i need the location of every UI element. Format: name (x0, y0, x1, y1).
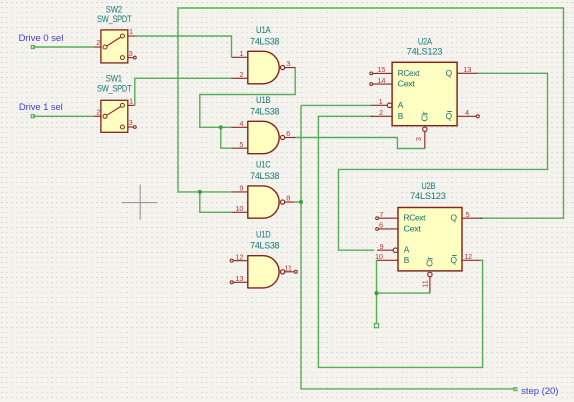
U2B A input inversion bubble (393, 248, 398, 253)
U1A pin 2 stub (232, 77, 248, 79)
unconnected Qbar marker (476, 115, 479, 118)
svg-text:5: 5 (466, 210, 470, 219)
svg-text:RCext: RCext (404, 213, 427, 223)
svg-text:2: 2 (239, 70, 243, 79)
wire U2B B pin10 to U2B Clr pin11 (377, 260, 431, 293)
SW2 body (101, 30, 128, 63)
IC U2B 74LS123 monostable (375, 181, 483, 293)
wire U1B pin6 to U2A Clr pin3 (294, 138, 425, 149)
net label "Drive 1 sel" (19, 102, 63, 118)
U1A output inversion bubble (281, 65, 285, 69)
svg-text:B: B (398, 111, 404, 121)
unconnected output marker (294, 270, 297, 273)
svg-text:B: B (404, 255, 410, 265)
svg-text:8: 8 (286, 194, 290, 203)
U2A Q pin stub (457, 72, 478, 74)
U1A pin 1 stub (232, 56, 248, 58)
svg-text:11: 11 (421, 280, 430, 287)
U1A body (248, 51, 279, 84)
U2B Q pin stub (462, 217, 483, 219)
U2B A pin stub (inverted) (377, 249, 393, 251)
U2A Qbar pin stub (457, 115, 476, 117)
svg-text:74LS38: 74LS38 (250, 36, 279, 46)
U2B Qbar pin stub (462, 259, 481, 261)
svg-text:Q: Q (450, 255, 457, 265)
SW1 throw arm (107, 106, 121, 115)
svg-text:10: 10 (235, 204, 243, 213)
svg-text:9: 9 (239, 184, 243, 193)
SW2 pin 3 unconnected marker (133, 56, 136, 59)
junction at U1C output (299, 200, 303, 204)
svg-text:Drive 0 sel: Drive 0 sel (19, 33, 64, 43)
svg-text:13: 13 (463, 65, 471, 74)
svg-text:12: 12 (464, 252, 472, 261)
U1C body (248, 186, 279, 218)
wire branch to U1B pin5 (221, 127, 232, 148)
wire SW1 pin1 to U1A pin2 (135, 78, 232, 105)
SW1 pin 2 stub (94, 115, 102, 117)
svg-text:2: 2 (96, 107, 100, 116)
svg-text:6: 6 (379, 221, 383, 230)
svg-text:4: 4 (465, 108, 469, 117)
U2A body (392, 62, 457, 125)
svg-text:9: 9 (380, 242, 384, 251)
svg-text:U1C: U1C (256, 160, 271, 170)
svg-text:74LS38: 74LS38 (250, 106, 279, 116)
unconnected input markers (230, 259, 233, 262)
svg-text:Clr: Clr (425, 256, 435, 266)
svg-text:12: 12 (235, 252, 243, 261)
svg-text:13: 13 (235, 274, 243, 283)
U1B pin 4 stub (232, 126, 248, 128)
svg-text:1: 1 (129, 97, 133, 106)
svg-text:RCext: RCext (398, 68, 421, 78)
svg-text:74LS123: 74LS123 (410, 191, 446, 201)
svg-text:SW1: SW1 (106, 74, 122, 84)
switch SW2 SW_SPDT (94, 5, 136, 63)
SW2 pin 1 stub (124, 35, 135, 37)
U2B Clr inversion bubble (428, 272, 432, 276)
net label "Drive 0 sel" (19, 33, 64, 48)
svg-text:U2B: U2B (421, 181, 435, 191)
SW1 body (101, 100, 128, 132)
U1C output inversion bubble (281, 200, 285, 204)
svg-text:3: 3 (414, 137, 423, 141)
U1C pin 8 output stub (285, 201, 295, 203)
SW1 pin 1 stub (124, 104, 135, 106)
svg-text:5: 5 (239, 140, 243, 149)
U1B pin 6 output stub (285, 137, 295, 139)
svg-text:74LS123: 74LS123 (407, 46, 443, 56)
U2B Cext pin stub (379, 228, 398, 230)
dangling wire end square (374, 324, 378, 328)
svg-text:10: 10 (375, 252, 383, 261)
svg-text:Cext: Cext (404, 223, 422, 233)
svg-text:2: 2 (96, 38, 100, 47)
NAND gate U1A (74LS38) (232, 25, 295, 84)
U2B Clr pin stub (bottom, inverted) (429, 277, 431, 293)
svg-text:SW_SPDT: SW_SPDT (97, 84, 132, 94)
SW1 pin 3 stub (124, 126, 134, 128)
switch SW1 SW_SPDT (94, 74, 136, 133)
svg-text:U2A: U2A (418, 37, 432, 47)
svg-text:Q: Q (446, 111, 453, 121)
svg-text:Clr: Clr (420, 111, 430, 121)
U2A RCext pin stub (373, 72, 392, 74)
svg-text:A: A (404, 245, 410, 255)
junction at U1C inputs (198, 190, 202, 194)
junction at U2B B/Clr (374, 291, 378, 295)
wire U2B Q pin5 to U1C pin9 (178, 8, 564, 218)
U2A Cext pin stub (373, 83, 392, 85)
wire SW2 pin1 to U1A pin1 (134, 36, 232, 57)
svg-text:15: 15 (377, 65, 385, 74)
svg-text:step (20): step (20) (521, 386, 558, 396)
U2B RCext pin stub (379, 217, 398, 219)
U1B output inversion bubble (281, 135, 285, 139)
U2A Clr inversion bubble (423, 127, 427, 131)
wire Drive 1 sel to SW1 pin2 (33, 115, 94, 117)
svg-text:74LS38: 74LS38 (250, 171, 279, 181)
svg-text:Cext: Cext (398, 79, 416, 89)
U1C pin 10 stub (232, 211, 248, 213)
svg-text:11: 11 (285, 263, 292, 272)
svg-text:4: 4 (239, 119, 243, 128)
svg-text:U1B: U1B (256, 95, 271, 105)
svg-text:3: 3 (286, 59, 290, 68)
svg-text:14: 14 (377, 76, 385, 85)
U2B B pin stub (377, 259, 399, 261)
wire dangling stub below junction (376, 293, 378, 323)
svg-text:1: 1 (239, 49, 243, 58)
U1D body (248, 256, 279, 288)
svg-text:1: 1 (379, 97, 383, 106)
U1C pin 9 stub (232, 191, 248, 193)
wire Drive 0 sel to SW2 pin2 (33, 46, 94, 48)
U2A A input inversion bubble (387, 103, 392, 108)
svg-text:U1D: U1D (256, 229, 271, 239)
U1D pin 11 output stub (285, 271, 295, 273)
wire U1C pin8 output stub (295, 201, 301, 203)
wire U1A pin3 to U1B pin4 (200, 68, 295, 128)
U1B pin 5 stub (232, 147, 248, 149)
svg-text:Drive 1 sel: Drive 1 sel (19, 102, 63, 112)
NAND gate U1C (74LS38) (232, 160, 295, 219)
IC U2A 74LS123 monostable (370, 37, 479, 149)
wire U1C output net down to step (20) label (301, 105, 515, 389)
wire U2A Q pin13 to U2B A pin9 (339, 73, 548, 250)
origin cross marker (122, 185, 158, 220)
svg-text:U1A: U1A (256, 25, 271, 35)
NAND gate U1B (74LS38) (232, 95, 295, 154)
SW1 pin 3 unconnected marker (133, 126, 136, 129)
svg-text:1: 1 (129, 27, 133, 36)
U1D pin 13 stub (233, 281, 248, 283)
svg-text:2: 2 (379, 108, 383, 117)
svg-text:3: 3 (129, 49, 133, 58)
SW2 pin 3 stub (124, 57, 134, 59)
NAND gate U1D (74LS38) (230, 229, 297, 288)
wire U2A B pin2 to U2B Qbar pin12 (318, 116, 482, 367)
svg-text:74LS38: 74LS38 (250, 241, 279, 251)
svg-text:Q: Q (446, 68, 453, 78)
U1A pin 3 output stub (285, 67, 295, 69)
svg-text:SW_SPDT: SW_SPDT (97, 14, 132, 24)
net label "step (20)" (514, 386, 558, 396)
U1B body (248, 121, 279, 153)
U2A A pin stub (inverted) (371, 104, 387, 106)
svg-text:A: A (398, 100, 404, 110)
svg-text:3: 3 (129, 118, 133, 127)
SW2 pin 2 stub (94, 46, 102, 48)
junction at U1B inputs (219, 125, 223, 129)
U1D output inversion bubble (281, 270, 285, 274)
U2A Clr pin stub (bottom, inverted) (424, 131, 426, 148)
SW2 throw arm (107, 37, 121, 46)
svg-text:6: 6 (286, 129, 290, 138)
wire U1C output net to U2A A pin1 (301, 104, 371, 106)
svg-text:Q: Q (450, 213, 457, 223)
wire branch to U1C pin10 (200, 192, 232, 212)
U1D pin 12 stub (233, 260, 248, 262)
U2A B pin stub (371, 115, 393, 117)
svg-text:7: 7 (379, 210, 383, 219)
U2B body (398, 208, 462, 271)
